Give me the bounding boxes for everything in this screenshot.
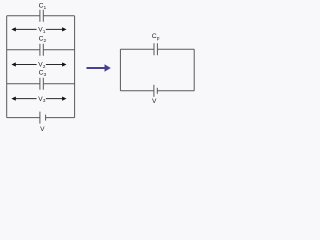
svg-text:C3: C3 bbox=[39, 70, 47, 78]
svg-text:Cp: Cp bbox=[152, 33, 160, 41]
equivalence arrow (blue, points right) bbox=[87, 64, 111, 71]
capacitor Cp plates bbox=[154, 43, 157, 55]
wire: lower branch left segment to C3 bbox=[7, 83, 40, 85]
wire: right circuit bottom edge right segment from battery V bbox=[157, 90, 194, 92]
arrow V1 double-headed voltage arrow bbox=[15, 28, 63, 30]
svg-text:C1: C1 bbox=[39, 2, 47, 10]
wire: middle branch right segment from C2 bbox=[43, 49, 74, 51]
battery V (left circuit) short plate bbox=[45, 115, 47, 121]
wire: lower branch right segment from C3 bbox=[43, 83, 74, 85]
wire: bottom edge right segment from battery V bbox=[46, 117, 75, 119]
battery V (right circuit) short plate bbox=[156, 88, 158, 94]
wire: right circuit top edge right segment from Cp bbox=[157, 48, 194, 50]
wire: left circuit outer loop (left rail) bbox=[6, 16, 8, 118]
capacitor C3 plates bbox=[40, 78, 43, 90]
svg-text:V1: V1 bbox=[38, 27, 45, 35]
svg-text:V: V bbox=[40, 126, 45, 133]
capacitor C2 plates bbox=[40, 44, 43, 56]
wire: right circuit right rail bbox=[193, 49, 195, 91]
wire: bottom edge left segment to battery V bbox=[7, 117, 40, 119]
svg-text:V3: V3 bbox=[38, 96, 45, 104]
arrow V2 double-headed voltage arrow bbox=[15, 64, 63, 66]
battery V (left circuit) long plate bbox=[39, 112, 41, 124]
battery V (right circuit) long plate bbox=[153, 85, 155, 97]
capacitor C1 plates bbox=[40, 10, 43, 22]
svg-text:V: V bbox=[152, 98, 157, 105]
wire: top edge right segment from C1 bbox=[43, 15, 74, 17]
wire: right circuit bottom edge left segment to battery V bbox=[120, 90, 153, 92]
arrow V3 double-headed voltage arrow bbox=[15, 98, 63, 100]
svg-text:C2: C2 bbox=[39, 36, 47, 44]
wire: top edge left segment to C1 bbox=[7, 15, 40, 17]
wire: left circuit right rail bbox=[74, 16, 76, 118]
wire: middle branch left segment to C2 bbox=[7, 49, 40, 51]
wire: right circuit top edge left segment to Cp bbox=[120, 48, 154, 50]
wire: right circuit left rail bbox=[119, 49, 121, 91]
